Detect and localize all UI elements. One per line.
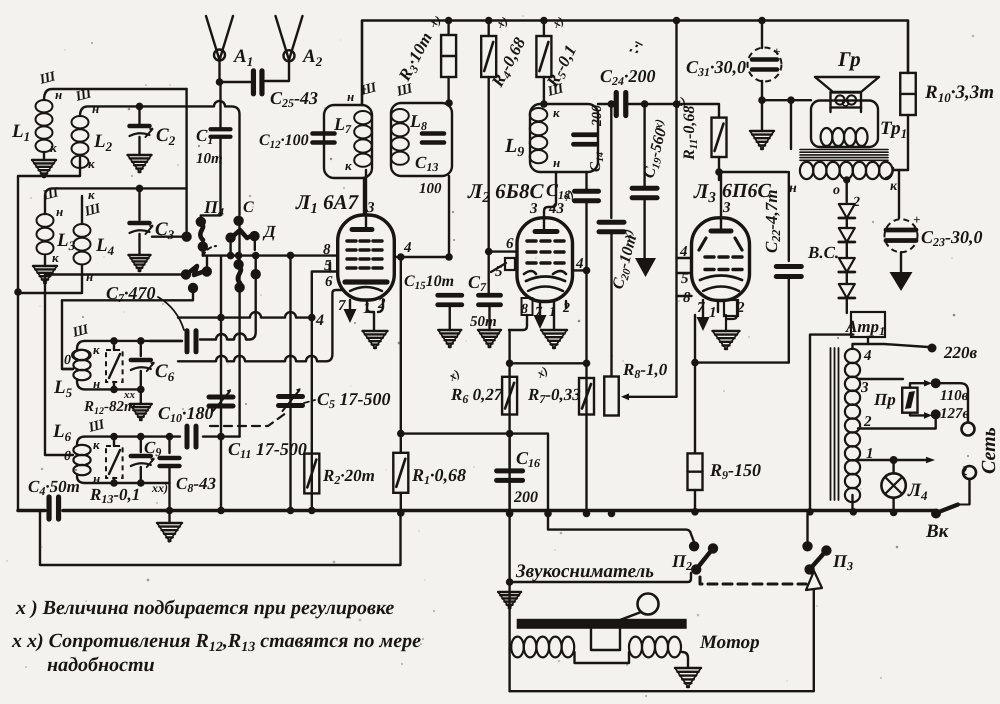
svg-text:Д: Д <box>262 222 277 241</box>
tube U2 pin7 arrow <box>534 301 547 329</box>
label TR1 o <box>833 183 840 198</box>
wire tap2 <box>858 419 936 429</box>
tube U3 pin3 lead <box>720 172 722 229</box>
tube U2 pin1 lead <box>553 301 555 330</box>
wire tap4 220v <box>853 344 928 347</box>
svg-text:С7·470: С7·470 <box>106 283 156 305</box>
svg-text:110в: 110в <box>940 388 969 404</box>
resistor R12 dashed <box>106 341 123 390</box>
transformer TR1 primary <box>821 128 868 146</box>
svg-text:надобности: надобности <box>47 654 155 676</box>
switch Vk <box>931 505 970 519</box>
svg-text:к: к <box>50 140 57 155</box>
label C17 50t <box>470 314 497 330</box>
tube U1 envelope <box>338 215 395 300</box>
svg-text:Л2 6Б8С: Л2 6Б8С <box>467 179 545 206</box>
wire L2 top <box>80 101 240 215</box>
capacitor C22 4.7t <box>776 172 801 363</box>
svg-text:С24·200: С24·200 <box>600 66 656 88</box>
label L5 0 <box>64 353 71 368</box>
wire tap to diodes <box>846 180 848 202</box>
svg-text:н: н <box>789 181 797 196</box>
label U1 pin1 <box>363 301 371 317</box>
label R1 <box>411 465 466 487</box>
wire L5 top <box>85 340 182 342</box>
terminal 127v <box>931 409 941 419</box>
resistor R4 line <box>488 21 490 294</box>
label L7 n <box>347 89 354 104</box>
wire L3L4 top bus <box>45 188 187 214</box>
wire motor links <box>510 647 688 668</box>
label R7 <box>527 363 581 406</box>
wire cathode return y361 <box>178 290 344 361</box>
svg-text:Звукосниматель: Звукосниматель <box>515 561 654 582</box>
coil L3 <box>37 214 54 266</box>
tube U1 pin1 gnd lead <box>367 300 383 331</box>
node rail junctions <box>445 17 766 25</box>
capacitor C7 470 <box>187 331 196 352</box>
wire L5 bottom <box>85 388 141 390</box>
capacitor C1 <box>201 82 231 218</box>
label R11 <box>672 93 700 161</box>
capacitor C23 electrolytic <box>885 212 921 272</box>
tube U3 internals <box>699 231 742 291</box>
wire pin56 drop <box>312 272 338 318</box>
label L3 <box>56 230 76 253</box>
svg-text:43: 43 <box>548 201 565 217</box>
resistor R3 line <box>447 21 450 258</box>
wire L2 bottom to left rail <box>18 155 80 511</box>
ground U2 cathode <box>541 330 567 348</box>
wire R9 trunk <box>694 315 696 512</box>
wire diode out <box>846 298 848 313</box>
wire C7 label leader <box>158 297 184 330</box>
label R4 <box>487 13 531 91</box>
resistor R5 line <box>543 21 545 105</box>
transformer TR1 box <box>811 101 878 148</box>
wire fuse bottom arrow <box>910 412 932 419</box>
svg-text:R12-82т: R12-82т <box>83 399 136 417</box>
label D <box>262 222 277 241</box>
tube U3 pin7 arrow <box>697 300 710 331</box>
svg-text:С31·30,0: С31·30,0 <box>686 57 746 79</box>
node C6 bottom <box>137 386 145 394</box>
label L9 k <box>553 105 560 120</box>
ground C17 <box>478 330 501 347</box>
label 127v <box>940 406 970 422</box>
tube U2 pin8 box <box>509 298 533 330</box>
resistor R7 <box>579 378 594 415</box>
svg-text:R11-0,68: R11-0,68 <box>681 106 700 161</box>
svg-text:R10·3,3т: R10·3,3т <box>924 82 994 105</box>
node screen junctions <box>608 100 649 108</box>
switch contact E <box>249 231 259 250</box>
node TR1 tap <box>843 176 850 183</box>
ground U1 cathode <box>363 331 388 348</box>
label L5 k <box>93 342 100 357</box>
node lamp top <box>890 456 898 464</box>
tube U3 envelope <box>692 218 750 301</box>
label U2 pins8712 <box>521 301 570 320</box>
node C31 bottom <box>758 96 766 104</box>
svg-text:200: 200 <box>513 489 538 506</box>
svg-text:н: н <box>86 269 93 284</box>
svg-text:н: н <box>553 155 560 170</box>
terminal seti1 <box>962 423 975 436</box>
ground motor <box>675 668 701 687</box>
label U3 pin8 <box>683 290 691 306</box>
svg-text:+: + <box>913 212 920 227</box>
terminal seti2 <box>963 466 976 479</box>
svg-text:R1·0,68: R1·0,68 <box>411 465 466 487</box>
label R3 10t <box>394 12 443 85</box>
terminal 220v <box>928 344 937 353</box>
label R8 <box>622 360 668 381</box>
wire pickup drop <box>508 514 510 692</box>
label C switch <box>243 199 254 216</box>
label U2 pin6 <box>506 236 514 252</box>
label L1 sh <box>37 69 58 88</box>
wire U2 pin5 link <box>491 263 506 272</box>
label C15 10t <box>404 273 454 292</box>
label C13 100 <box>419 181 442 197</box>
svg-text:н: н <box>55 87 62 102</box>
wire U2 grid feed <box>489 250 517 252</box>
wire R2 trunk <box>311 318 313 511</box>
antenna A2 <box>265 16 303 81</box>
wire U1 pin4 <box>394 256 449 258</box>
svg-text:о: о <box>833 183 840 198</box>
tube U1 pin7 arrow <box>344 300 357 323</box>
node bus4 ends <box>217 314 315 322</box>
node R13 bottom <box>110 479 144 487</box>
label U3 pin2 <box>736 300 745 316</box>
wire L7 bottom to U1 <box>363 178 365 215</box>
svg-text:R7-0,33: R7-0,33 <box>527 385 581 406</box>
svg-text:200: 200 <box>590 105 605 127</box>
coil L7 box <box>324 105 372 178</box>
wire I riser to L6 tap <box>62 300 73 369</box>
node U2 pin4 <box>583 267 591 275</box>
label U3 pin5 <box>681 271 689 287</box>
switch arm D-E <box>231 230 253 238</box>
tube U2 pin3 lead <box>544 172 556 229</box>
motor coil left <box>511 637 574 658</box>
label L8 sh <box>394 81 415 100</box>
wire U3 pin4 <box>677 257 692 259</box>
wire tap1 <box>858 457 935 464</box>
note xx) 2 <box>47 654 155 676</box>
label L4 sh <box>82 201 103 220</box>
wire C1 trunk lower <box>238 221 241 437</box>
label A2 <box>302 46 323 69</box>
capacitor C5 variable <box>279 388 303 411</box>
wire C5 label dash <box>304 400 315 403</box>
coil L8 box <box>391 103 452 176</box>
wire R8 wiper <box>621 393 677 400</box>
wire C5 trunk <box>289 255 291 510</box>
label C16 <box>516 448 540 470</box>
label R6 <box>446 366 504 406</box>
svg-text:R8-1,0: R8-1,0 <box>622 360 668 381</box>
label TR1 k <box>890 179 898 194</box>
wire screen drop x676 <box>675 21 677 397</box>
wire C31 to TR1 <box>762 99 811 101</box>
node pin8 junctions <box>227 252 295 260</box>
resistor R4 <box>481 36 496 77</box>
node bus junctions <box>217 507 897 518</box>
svg-text:хх: хх <box>123 389 136 401</box>
svg-text:8: 8 <box>323 242 331 258</box>
capacitor C19 560 <box>632 104 657 258</box>
label tap2 <box>863 414 872 430</box>
label C24 200 <box>600 66 656 88</box>
label motor <box>699 632 760 653</box>
label tap1 <box>866 446 874 462</box>
resistor R8 potentiometer <box>604 377 619 416</box>
svg-text:С4·50т: С4·50т <box>28 477 80 498</box>
switch contact G <box>181 269 191 279</box>
wire U3 pin8 <box>677 295 692 297</box>
wire switch feed left <box>185 89 187 232</box>
wire TR1 left drop <box>790 100 792 149</box>
label tube L1 6A7 <box>295 190 360 217</box>
svg-text:0: 0 <box>64 449 71 464</box>
label C17 <box>468 272 487 294</box>
wire 110v to seti <box>936 383 968 422</box>
node L6 top junctions <box>110 433 225 441</box>
switch contact I <box>62 283 198 301</box>
node R6R7 <box>506 360 590 368</box>
label L5 <box>53 377 73 400</box>
pickup arm <box>620 594 659 621</box>
wire C16 top link <box>401 434 694 542</box>
label L2 k <box>88 156 95 171</box>
wire G to L5 tap riser <box>45 275 181 456</box>
lamp L4 <box>881 460 905 513</box>
wire bus4 <box>178 312 312 318</box>
svg-text:R2·20т: R2·20т <box>322 466 375 487</box>
svg-text:8: 8 <box>683 290 691 306</box>
switch contact K <box>234 282 244 292</box>
node x676 joints <box>673 100 681 108</box>
capacitor C25 43 <box>253 71 262 94</box>
label L1 n <box>55 87 62 102</box>
switch contact J <box>233 256 243 270</box>
label L9 <box>504 135 524 160</box>
terminal 110v <box>931 378 941 388</box>
wire seti2 down <box>968 479 970 504</box>
svg-text:н: н <box>92 101 99 116</box>
label C13 <box>415 153 438 174</box>
label U3 pin7 <box>697 300 705 316</box>
label C11 17-500 <box>228 439 307 461</box>
label L6 <box>52 421 72 444</box>
svg-text:R9-150: R9-150 <box>709 460 761 482</box>
tube U1 internals <box>345 230 387 292</box>
wire U2 pin4 <box>573 269 587 271</box>
label R10 <box>924 82 994 105</box>
capacitor C2 trimmer <box>130 106 154 155</box>
label L4 n <box>86 269 93 284</box>
tube U2 pin2 lead <box>565 301 567 308</box>
label seti <box>955 427 1000 476</box>
capacitor C8 43 <box>160 437 180 523</box>
label C20 10t <box>609 227 642 291</box>
coil L4 <box>18 196 91 293</box>
label TR1 <box>880 118 907 141</box>
ground C8 <box>157 523 182 541</box>
resistor R11 <box>712 118 727 157</box>
wire L6 top <box>85 435 240 437</box>
capacitor C20 10t <box>599 104 624 377</box>
wire k to C23 <box>898 170 900 218</box>
label U3 pin3 <box>722 200 731 216</box>
wire screen bus y104 <box>598 103 677 105</box>
svg-text:R13-0,1: R13-0,1 <box>89 485 140 506</box>
wire L1 top <box>44 89 187 100</box>
svg-text:5: 5 <box>324 258 332 274</box>
switch P3 triangle <box>806 571 822 590</box>
label L2 sh <box>73 86 94 105</box>
svg-text:6: 6 <box>325 274 333 290</box>
capacitor C11 variable <box>209 389 233 411</box>
wire C7 left to L5 <box>150 340 182 342</box>
label L4 k <box>88 187 95 202</box>
svg-text:к: к <box>93 437 100 452</box>
svg-text:Мотор: Мотор <box>699 632 760 653</box>
capacitor C15 <box>438 295 462 330</box>
svg-text:н: н <box>347 89 354 104</box>
ground C6 <box>130 404 152 420</box>
coil L9 <box>530 108 548 163</box>
label C5 17-500 <box>317 389 391 411</box>
wire pickup bus <box>510 573 691 582</box>
svg-text:С8-43: С8-43 <box>176 474 217 495</box>
ground C31 <box>750 131 774 149</box>
label R9 150 <box>709 460 761 482</box>
ground C3 <box>129 255 151 271</box>
label U3 pin4 <box>679 244 688 260</box>
svg-text:Сеть: Сеть <box>978 427 1000 474</box>
wire gang dashed <box>210 413 286 426</box>
label C4 50t <box>28 477 80 498</box>
svg-text:к: к <box>93 342 100 357</box>
svg-text:н: н <box>56 204 63 219</box>
label C1 10t <box>196 151 223 167</box>
svg-text:С12·100: С12·100 <box>259 132 309 151</box>
label R13 <box>89 481 168 506</box>
label L5 sh <box>70 322 91 341</box>
label L6 n <box>93 471 100 486</box>
wire pin5 stub <box>329 263 331 272</box>
svg-text:к: к <box>88 156 95 171</box>
label U1 pin6 <box>325 274 333 290</box>
label C22 <box>762 190 783 253</box>
wire L5 0 tap <box>62 368 73 370</box>
label L6 sh <box>86 417 107 436</box>
capacitor C12 100 <box>313 134 335 143</box>
capacitor C3 trimmer <box>130 188 154 255</box>
label tap4 <box>863 348 872 364</box>
label R12 <box>83 389 136 417</box>
capacitor C16 200 <box>497 434 523 514</box>
wire P3 feed <box>806 514 808 541</box>
node L8 top <box>445 99 453 107</box>
wire TR1 right end <box>886 168 908 178</box>
label R2 20t <box>322 466 375 487</box>
svg-text:3: 3 <box>860 380 869 396</box>
svg-text:2: 2 <box>863 414 872 430</box>
svg-text:220в: 220в <box>943 343 978 362</box>
coil L1 <box>36 100 53 160</box>
label L3 sh <box>40 185 61 204</box>
svg-text:Л1 6А7: Л1 6А7 <box>295 190 360 217</box>
arrow ground C23 <box>890 272 913 291</box>
switch contact L <box>251 269 261 279</box>
node pickup joint <box>506 578 514 586</box>
label Pr <box>873 390 896 409</box>
svg-text:к: к <box>345 158 352 173</box>
wire P2 dash link <box>700 577 806 584</box>
node A1 junction <box>216 78 224 86</box>
label P4 <box>203 197 224 219</box>
label U2 pin3 <box>529 201 538 217</box>
label U1 pin3 <box>366 200 375 216</box>
wire A1 to C25 <box>220 81 251 83</box>
switch arm G-H <box>187 266 205 275</box>
label tap3 <box>860 380 869 396</box>
label C19 560 <box>640 117 672 180</box>
coil L7 <box>354 111 372 167</box>
resistor R2 <box>304 454 319 494</box>
capacitor C4 50t <box>49 497 59 519</box>
label tube L3 6P6C <box>693 179 772 206</box>
wire C18 trunk <box>585 172 587 514</box>
svg-text:~: ~ <box>955 466 975 476</box>
svg-text:С11 17-500: С11 17-500 <box>228 439 307 461</box>
node cathode link <box>691 359 699 367</box>
label C12 100 <box>259 132 309 151</box>
tube U1 pin3 lead <box>365 170 367 229</box>
ground pickup <box>498 592 521 608</box>
note xx) <box>11 630 421 655</box>
label C2 <box>156 125 176 148</box>
wire ATR1 feed <box>867 337 869 344</box>
svg-text:4: 4 <box>403 240 412 256</box>
wire C11 trunk <box>220 256 222 511</box>
svg-text:С23-30,0: С23-30,0 <box>921 227 983 249</box>
label 220v <box>943 343 978 362</box>
switch contact H <box>202 256 212 277</box>
autotransformer frame <box>810 335 853 512</box>
label U1 pin4 <box>403 240 412 256</box>
node R12 bottom <box>110 386 118 394</box>
svg-text:6: 6 <box>506 236 514 252</box>
resistor R6 <box>502 377 517 415</box>
label L6 k <box>93 437 100 452</box>
label C31 <box>686 57 746 79</box>
label bus4 <box>315 312 324 329</box>
svg-text:к: к <box>890 179 898 194</box>
label L4 lamp <box>907 480 928 503</box>
svg-text:3: 3 <box>366 200 375 216</box>
label L1 k <box>50 140 57 155</box>
svg-text:С1510т: С1510т <box>404 273 454 292</box>
ground C2 <box>128 155 152 172</box>
label VC <box>807 243 839 262</box>
autotransformer core <box>831 348 839 500</box>
